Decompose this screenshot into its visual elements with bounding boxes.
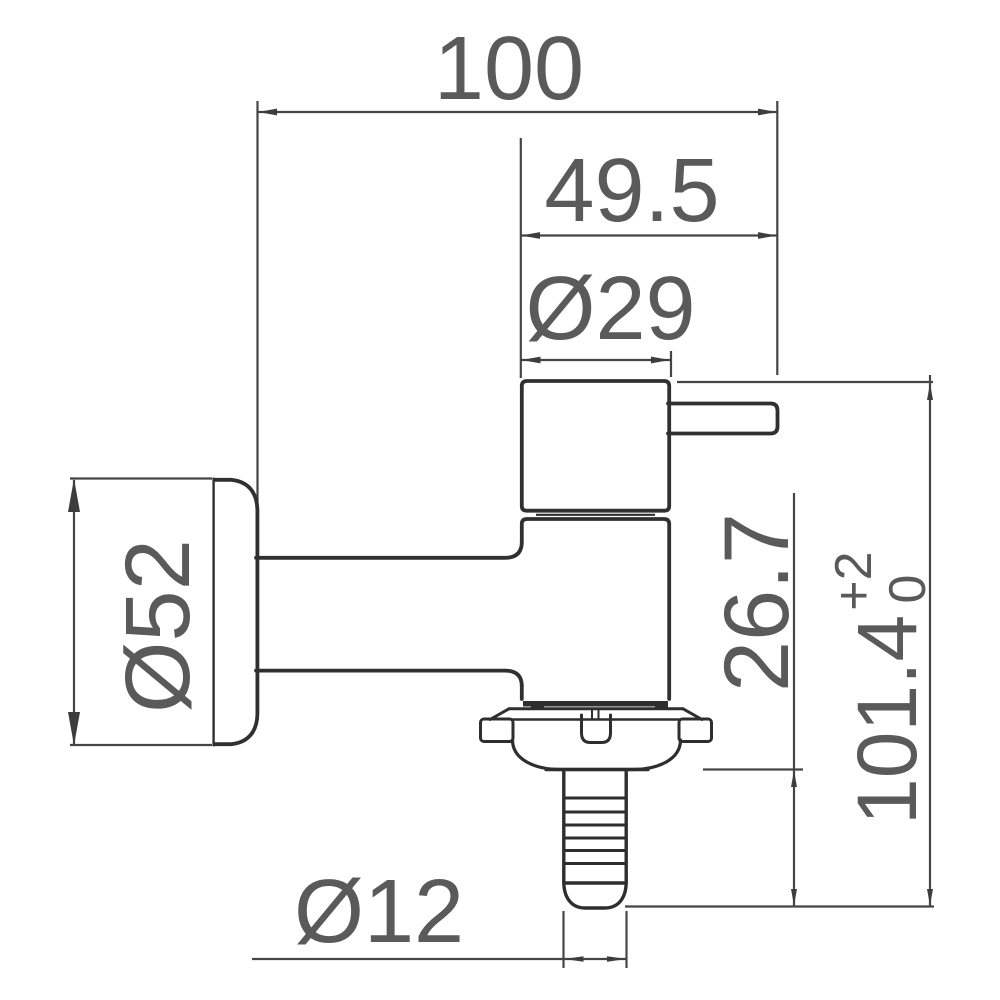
svg-text:Ø52: Ø52 — [107, 539, 209, 713]
svg-text:100: 100 — [434, 19, 584, 119]
svg-text:Ø12: Ø12 — [294, 862, 464, 962]
svg-text:101.4+20: 101.4+20 — [825, 551, 937, 825]
svg-text:49.5: 49.5 — [544, 141, 719, 241]
svg-text:26.7: 26.7 — [706, 513, 808, 692]
svg-text:Ø29: Ø29 — [525, 259, 695, 359]
